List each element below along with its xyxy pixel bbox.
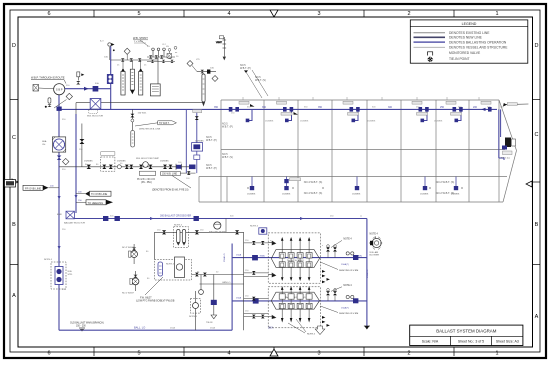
small line labels along ballast main bbox=[214, 106, 478, 109]
dosing drop line bbox=[157, 57, 159, 84]
air vent component bbox=[77, 72, 85, 81]
sounding header bbox=[197, 71, 216, 73]
svg-text:NOTE 4: NOTE 4 bbox=[189, 316, 198, 318]
manifold2 inlet arrow bbox=[268, 315, 276, 319]
header valve A bbox=[162, 230, 166, 234]
row2 arrowhead cluster bbox=[322, 316, 330, 327]
hull forward vertical bbox=[498, 100, 500, 202]
legend tie-in point symbol bbox=[426, 56, 434, 63]
TANK RISERS on ballast main bbox=[248, 109, 505, 160]
legend existing line sample bbox=[414, 32, 446, 34]
note4 label row2 bbox=[331, 285, 352, 291]
vent mast top flag bbox=[219, 36, 224, 39]
hull deck line bbox=[221, 99, 499, 101]
overboard valve chest bbox=[42, 137, 66, 152]
row check valve bbox=[117, 165, 121, 169]
right frame tie-in arrow bbox=[526, 181, 532, 187]
tie-in diamond T4 bbox=[212, 76, 218, 82]
aux vertical with valve bbox=[206, 275, 217, 324]
svg-text:NOTE 4: NOTE 4 bbox=[174, 225, 183, 227]
svg-text:GRN LO: GRN LO bbox=[222, 282, 231, 284]
svg-text:250: 250 bbox=[440, 106, 445, 109]
svg-text:150A: 150A bbox=[236, 253, 242, 256]
svg-text:50A: 50A bbox=[210, 67, 214, 70]
aft lower bulkhead bbox=[226, 177, 228, 203]
svg-text:150 W.B.: 150 W.B. bbox=[138, 113, 147, 115]
aux valve b bbox=[203, 273, 207, 277]
row valve 7 bbox=[169, 165, 173, 169]
small pump unit SP bbox=[189, 291, 200, 330]
svg-text:W.B. EDUCTOR PUMP: W.B. EDUCTOR PUMP bbox=[136, 158, 159, 160]
strainer label bbox=[113, 36, 148, 51]
manifold2 inter-row stems bbox=[282, 299, 309, 303]
sea chest outlet valve bbox=[57, 156, 62, 160]
er vertical black line bbox=[75, 103, 77, 114]
manifold1 inter-row stems bbox=[282, 258, 309, 262]
manifold1 hopper outline bbox=[271, 250, 319, 268]
svg-text:W.B.T. (S): W.B.T. (S) bbox=[222, 156, 233, 159]
manifold No1 blue run bbox=[232, 257, 367, 259]
er aux valve bbox=[80, 139, 85, 144]
svg-text:D: D bbox=[535, 43, 539, 49]
crossover flow arrow 2 bbox=[300, 217, 304, 220]
manifold2 down arrows bbox=[281, 309, 311, 323]
dosing unit small labels bbox=[147, 46, 178, 54]
tank bulkhead 2 bbox=[297, 100, 299, 202]
svg-text:W.B.T. (S): W.B.T. (S) bbox=[255, 79, 266, 82]
row valve 3 bbox=[109, 165, 113, 169]
riser bow bbox=[499, 109, 504, 160]
manifold supply vertical bbox=[231, 244, 233, 331]
svg-text:150WBS: 150WBS bbox=[195, 140, 204, 142]
svg-text:NO.2 W.B.P.: NO.2 W.B.P. bbox=[122, 247, 135, 249]
svg-text:150WBS: 150WBS bbox=[84, 161, 93, 163]
manifold1 blue inline valve bbox=[252, 255, 258, 260]
svg-text:Scale: N/A: Scale: N/A bbox=[422, 340, 439, 344]
svg-text:300: 300 bbox=[388, 106, 393, 109]
svg-text:W.B.T. (P): W.B.T. (P) bbox=[206, 167, 217, 170]
pump room header line bbox=[155, 231, 244, 233]
pump suction capsule bbox=[45, 98, 52, 108]
svg-text:(LOW PTG FW/NB SO/BLVT-FW) DB: (LOW PTG FW/NB SO/BLVT-FW) DB bbox=[136, 301, 175, 303]
pump no2 impeller bbox=[132, 252, 136, 256]
aft tank callout text bbox=[240, 64, 268, 98]
discharge flow arrow bbox=[84, 87, 89, 91]
svg-text:NO.4 W.B.T. (S): NO.4 W.B.T. (S) bbox=[304, 180, 323, 184]
grid numbers bottom bbox=[47, 351, 498, 357]
riser tank1 bbox=[248, 109, 253, 120]
callout flag F3 bbox=[76, 200, 113, 205]
eductor pump cluster bbox=[136, 158, 159, 184]
pump no1 impeller bbox=[133, 279, 137, 283]
er stub line bbox=[180, 172, 196, 174]
tie leader bbox=[192, 66, 197, 72]
tank bulkhead 4 bbox=[366, 100, 368, 202]
svg-text:F.W. INLET: F.W. INLET bbox=[140, 297, 152, 299]
ballast pump P1 bbox=[54, 84, 65, 95]
discharge valve V1 bbox=[93, 86, 99, 92]
flow arrow port main a bbox=[58, 196, 61, 200]
tank suction tee 1 bbox=[247, 177, 256, 196]
svg-text:A: A bbox=[535, 314, 539, 320]
svg-text:Sheet No.: 3 of 5: Sheet No.: 3 of 5 bbox=[458, 340, 484, 344]
crossover line labels bbox=[223, 253, 242, 299]
row valve 6 bbox=[163, 165, 167, 169]
svg-text:EDR: EDR bbox=[57, 214, 62, 216]
svg-text:1: 1 bbox=[495, 11, 498, 17]
aux drop with gauge bbox=[199, 275, 204, 295]
main line valve group 2 bbox=[277, 101, 299, 115]
svg-text:W.B.T. (P): W.B.T. (P) bbox=[222, 126, 233, 129]
svg-text:2: 2 bbox=[407, 11, 410, 17]
svg-text:BALLAST EDUCTOR: BALLAST EDUCTOR bbox=[64, 222, 85, 225]
svg-text:NO.1 W.B.P.: NO.1 W.B.P. bbox=[122, 293, 135, 295]
air blower unit bbox=[369, 233, 382, 256]
tank suction tee 4 bbox=[420, 177, 429, 196]
svg-text:DENOTES NEW LINE: DENOTES NEW LINE bbox=[449, 36, 483, 40]
svg-text:NOTE 4: NOTE 4 bbox=[370, 233, 379, 235]
row spool piece bbox=[176, 164, 182, 170]
svg-text:4: 4 bbox=[227, 11, 230, 17]
pump motor block bbox=[33, 85, 54, 92]
valve on port main bbox=[57, 107, 62, 111]
manifold1 inlet arrow upper bbox=[268, 241, 276, 245]
VALVE CLUSTERS on ballast main bbox=[229, 101, 492, 115]
riser tank4 bbox=[423, 109, 428, 120]
bow tank cluster bbox=[481, 103, 528, 160]
svg-text:150WBS: 150WBS bbox=[300, 121, 309, 123]
manifold No2 blue run bbox=[232, 300, 367, 302]
header valve B bbox=[195, 230, 199, 234]
UV treatment unit bbox=[107, 74, 113, 84]
sounding pipe capsule bbox=[202, 74, 205, 107]
svg-text:6: 6 bbox=[47, 351, 50, 357]
callout flag F1 bbox=[23, 185, 59, 190]
manifold1 up arrows bbox=[281, 237, 311, 253]
svg-text:250A: 250A bbox=[170, 327, 175, 330]
no5 branch drop lines bbox=[186, 109, 217, 173]
svg-text:1: 1 bbox=[495, 351, 498, 357]
svg-text:50A: 50A bbox=[104, 56, 108, 59]
engine room vertical main stbd bbox=[75, 114, 77, 213]
legend monitored valve symbol bbox=[428, 52, 433, 56]
svg-text:B: B bbox=[535, 222, 539, 228]
svg-text:BALL. LO: BALL. LO bbox=[134, 326, 145, 330]
manifold1 down arrows bbox=[281, 267, 311, 281]
svg-text:W.B. STRNT: W.B. STRNT bbox=[133, 36, 148, 40]
svg-text:W.B.T. (P): W.B.T. (P) bbox=[240, 67, 251, 70]
denotes-from label box bbox=[152, 172, 191, 192]
svg-text:C: C bbox=[535, 132, 539, 138]
svg-text:150WBS: 150WBS bbox=[420, 193, 429, 195]
grid letters right bbox=[535, 43, 539, 320]
svg-text:150WBS: 150WBS bbox=[160, 161, 169, 163]
grid tick marks left bbox=[10, 100, 18, 265]
flow arrow port main b bbox=[58, 246, 61, 250]
svg-text:Sheet Size: A3: Sheet Size: A3 bbox=[496, 340, 519, 344]
svg-text:CH.: CH. bbox=[42, 144, 46, 146]
svg-text:DENOTES VLV RM: DENOTES VLV RM bbox=[339, 313, 358, 315]
svg-text:LEGEND: LEGEND bbox=[462, 22, 477, 26]
deck valve pair row 1 bbox=[326, 245, 354, 258]
grid numbers top bbox=[47, 11, 498, 17]
vent isolating valve bbox=[76, 81, 80, 85]
feeder stub valves bbox=[252, 241, 265, 318]
main line valve group 3 bbox=[343, 101, 360, 115]
pump room right vertical bbox=[243, 232, 245, 330]
tank bulkhead 1 bbox=[263, 100, 265, 202]
blue valve row1 right bbox=[353, 255, 358, 260]
svg-text:150A: 150A bbox=[236, 297, 242, 300]
manifold2 valve row lower bbox=[279, 303, 312, 308]
hull bow upper slant bbox=[499, 100, 517, 151]
note4 label row1 bbox=[331, 239, 352, 248]
svg-text:250A: 250A bbox=[210, 327, 215, 330]
row dashed box bbox=[101, 157, 115, 171]
remote valve group NO5 bbox=[192, 140, 205, 173]
svg-text:150WBS: 150WBS bbox=[282, 193, 291, 195]
eductor unit on crossover bbox=[57, 211, 85, 224]
tank bulkhead 3 bbox=[331, 100, 333, 202]
BLUE PIPING MAINS bbox=[59, 95, 497, 331]
row1 denotes label bbox=[320, 262, 358, 272]
stripping line end symbol bbox=[364, 326, 370, 330]
svg-text:NOTE 4: NOTE 4 bbox=[44, 259, 53, 261]
svg-text:SEA: SEA bbox=[42, 140, 47, 143]
svg-text:F.P.T. (C): F.P.T. (C) bbox=[501, 158, 510, 160]
sounding fitting bbox=[207, 70, 210, 74]
svg-text:W.B.T. (P): W.B.T. (P) bbox=[206, 139, 217, 142]
manifold2 blue inline valve bbox=[253, 298, 259, 303]
stripping line down fwd bbox=[366, 219, 368, 327]
pump suction note text bbox=[31, 76, 66, 84]
svg-text:NOTE 4: NOTE 4 bbox=[250, 226, 259, 228]
manifold2 hopper outline bbox=[271, 292, 319, 309]
manifold1 valve row lower bbox=[279, 262, 312, 267]
svg-text:NO.2 W.B.T. (S): NO.2 W.B.T. (S) bbox=[436, 180, 455, 184]
svg-text:250A LO: 250A LO bbox=[223, 253, 226, 262]
ballast crossover lower run bbox=[73, 218, 367, 220]
svg-text:STR.: STR. bbox=[68, 274, 73, 276]
svg-text:OLD BALLAST MAIN (BRANCH): OLD BALLAST MAIN (BRANCH) bbox=[70, 321, 104, 324]
hull lower-aft vertical bbox=[198, 177, 200, 203]
aux line y=274.5 bbox=[192, 274, 244, 276]
svg-text:DENOTES EXISTING LINE: DENOTES EXISTING LINE bbox=[449, 31, 490, 35]
grn line bbox=[200, 283, 244, 285]
sampling cylinder 2 bbox=[130, 60, 134, 94]
row valve 1 bbox=[87, 165, 92, 169]
svg-text:150WBS: 150WBS bbox=[451, 193, 460, 195]
svg-text:150WBS: 150WBS bbox=[265, 121, 274, 123]
svg-text:(DENOTES FROM 50 WL P RE 10): (DENOTES FROM 50 WL P RE 10) bbox=[152, 190, 189, 192]
row valve 4 bbox=[125, 165, 129, 169]
treated water unit riser bbox=[110, 46, 112, 109]
eductor pair dashed box bbox=[174, 225, 189, 248]
left frame port label box bbox=[5, 180, 16, 188]
crossover flow arrow bbox=[150, 217, 154, 220]
svg-text:A.V.: A.V. bbox=[100, 40, 104, 43]
tank small dots bbox=[247, 187, 462, 188]
svg-text:FR OVB LINE: FR OVB LINE bbox=[25, 186, 41, 190]
overboard eductor unit bbox=[87, 99, 103, 118]
riser tank3 bbox=[354, 109, 359, 120]
hull bottom line bbox=[199, 201, 503, 203]
svg-text:350: 350 bbox=[214, 106, 219, 109]
strainer leader line bbox=[140, 40, 148, 46]
deck vent ticks bbox=[243, 97, 479, 100]
riser tank5 bbox=[457, 109, 462, 120]
ballast pump no2 bbox=[122, 244, 138, 264]
legend ballasting operation sample bbox=[414, 41, 446, 43]
svg-text:3: 3 bbox=[317, 11, 320, 17]
main line valve group 1 bbox=[229, 101, 255, 111]
grid letters left bbox=[12, 43, 16, 299]
svg-text:5: 5 bbox=[137, 351, 140, 357]
pump room left drop bbox=[154, 232, 156, 259]
svg-text:150 W.B. LINE: 150 W.B. LINE bbox=[162, 174, 178, 176]
svg-text:A: A bbox=[12, 293, 16, 299]
crossover valve bbox=[103, 216, 108, 221]
duplex strainer unit bbox=[44, 259, 73, 289]
dosing end box bbox=[167, 46, 177, 58]
svg-text:150A(?): 150A(?) bbox=[341, 307, 349, 310]
main line valve group 5 bbox=[446, 101, 463, 115]
svg-text:350: 350 bbox=[262, 106, 267, 109]
manifold2 up arrows bbox=[281, 286, 311, 294]
tie-in diamond T5 bbox=[63, 158, 69, 164]
svg-text:C: C bbox=[12, 135, 16, 141]
svg-text:D: D bbox=[12, 43, 16, 49]
left frame tie-in arrow bbox=[12, 179, 18, 185]
riser end fittings bbox=[246, 119, 458, 123]
svg-text:NOTE 4: NOTE 4 bbox=[343, 285, 352, 287]
sampling cylinder 1 bbox=[121, 60, 125, 95]
svg-text:NOTE 4: NOTE 4 bbox=[307, 333, 316, 335]
SHIP HULL OUTLINE bbox=[199, 100, 517, 202]
svg-text:W.B. AIR: W.B. AIR bbox=[370, 251, 379, 254]
svg-text:150WBS: 150WBS bbox=[434, 121, 443, 123]
svg-text:150A(?): 150A(?) bbox=[341, 263, 349, 266]
hull aft vertical bbox=[220, 100, 222, 202]
NO5 WBT labels aft bbox=[222, 123, 233, 160]
er stub valve bbox=[187, 171, 191, 175]
svg-text:W.B.: W.B. bbox=[68, 271, 73, 273]
blue valve row2 right bbox=[353, 298, 358, 303]
flag leader labels bbox=[50, 186, 82, 202]
dosing manifold header bbox=[147, 48, 175, 57]
manifold2 note leaders bbox=[288, 319, 306, 333]
OLD BALLAST branch note bbox=[70, 321, 104, 330]
crossover valve 3 bbox=[115, 216, 120, 221]
dosing manifold valves bbox=[149, 55, 152, 58]
svg-text:TIE-IN POINT: TIE-IN POINT bbox=[449, 57, 470, 61]
dosing manifold extra valves bbox=[147, 49, 175, 64]
legend new line sample bbox=[414, 36, 446, 38]
svg-text:(3N - 35A): (3N - 35A) bbox=[141, 181, 152, 184]
chemical tank box bbox=[150, 84, 160, 96]
header valve b bbox=[130, 58, 134, 62]
row valve 5 bbox=[129, 165, 133, 169]
svg-text:B: B bbox=[12, 222, 16, 228]
header valve a bbox=[121, 58, 125, 62]
row small labels bbox=[84, 161, 169, 163]
ballast pump no1 bbox=[122, 271, 139, 295]
tie-in diamond T1 bbox=[54, 93, 73, 108]
tank bulkhead 7 bbox=[468, 100, 470, 202]
tank suction tee 2 bbox=[282, 177, 301, 196]
tank bulkhead 5 bbox=[400, 100, 402, 202]
svg-text:VENT: VENT bbox=[216, 42, 222, 44]
svg-text:NOTE 4: NOTE 4 bbox=[166, 264, 175, 266]
LEGEND box bbox=[410, 20, 528, 63]
svg-text:200: 200 bbox=[473, 106, 478, 109]
row1 arrowhead cluster bbox=[322, 270, 330, 283]
aux valve a bbox=[195, 273, 199, 277]
fw unit dashed box bbox=[155, 257, 192, 280]
top centre datum triangle bbox=[270, 10, 278, 17]
svg-text:W.B. EDUCTOR: W.B. EDUCTOR bbox=[87, 116, 103, 118]
flow arrow stbd main bbox=[75, 195, 78, 199]
svg-text:6: 6 bbox=[47, 11, 50, 17]
filter inlet header bbox=[111, 59, 158, 61]
grid tick marks right bbox=[533, 100, 541, 265]
svg-text:W.B.P. THROUGH E ROUTE: W.B.P. THROUGH E ROUTE bbox=[31, 76, 65, 80]
svg-text:150A LO: 150A LO bbox=[366, 269, 369, 278]
svg-text:4: 4 bbox=[227, 351, 230, 357]
old ballast main bottom run bbox=[59, 329, 232, 331]
svg-text:NO.4 W.B.T. (S): NO.4 W.B.T. (S) bbox=[304, 191, 323, 195]
sampling cylinder 3 bbox=[139, 60, 143, 95]
micro annotation texts bbox=[62, 44, 504, 330]
legend vessel structure sample bbox=[414, 46, 446, 48]
svg-text:150WBS: 150WBS bbox=[352, 193, 361, 195]
tank suction tee 5 bbox=[451, 177, 460, 196]
sea water crossover black line bbox=[76, 102, 204, 104]
svg-text:S B P: S B P bbox=[56, 88, 63, 92]
bottom centre datum triangle bbox=[270, 349, 278, 356]
manifold2 dashed enclosure bbox=[268, 287, 320, 328]
svg-text:TO OVB LINE: TO OVB LINE bbox=[91, 192, 108, 196]
vent mast bbox=[216, 37, 226, 60]
grid tick marks bottom bbox=[94, 347, 454, 356]
riser tank2 bbox=[287, 109, 292, 120]
valve row line bbox=[59, 166, 196, 168]
svg-text:3: 3 bbox=[317, 351, 320, 357]
deck valve pair row 2 bbox=[326, 289, 354, 301]
svg-text:150WBS: 150WBS bbox=[247, 193, 256, 195]
small blue unit above manifold1 bbox=[250, 226, 267, 235]
hull bow lower slant bbox=[503, 151, 517, 203]
svg-text:350A: 350A bbox=[260, 254, 266, 257]
pump discharge blue line bbox=[65, 88, 111, 90]
tank suction tee 3 bbox=[352, 177, 361, 196]
hull inner bottom line bbox=[199, 176, 507, 178]
tie-in diamond T3 bbox=[187, 61, 193, 67]
manifold1 inlet arrow lower bbox=[268, 273, 276, 277]
er vertical black line 2 bbox=[81, 124, 83, 167]
tank bulkhead 6 bbox=[435, 100, 437, 202]
svg-text:BLOWER: BLOWER bbox=[370, 255, 380, 257]
svg-text:BALLAST PUMP: BALLAST PUMP bbox=[209, 231, 226, 234]
manifold1 valve row upper bbox=[279, 253, 312, 258]
drain callout cluster bbox=[130, 109, 176, 147]
svg-text:DENOTES BALLASTING OPERATION: DENOTES BALLASTING OPERATION bbox=[449, 40, 507, 44]
row box label bbox=[101, 152, 115, 155]
manifold1 dashed enclosure bbox=[268, 233, 320, 283]
grid tick marks top bbox=[94, 10, 454, 17]
sounding valve bbox=[201, 70, 205, 74]
svg-text:150WBS: 150WBS bbox=[367, 121, 376, 123]
